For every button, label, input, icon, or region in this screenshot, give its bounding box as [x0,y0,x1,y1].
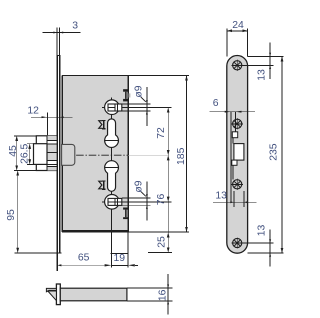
dimension 65 and 19 (backset, bottom) [57,233,138,268]
svg-text:26.5: 26.5 [20,143,31,163]
top keyhole cutout [105,119,119,148]
dimension 26.5 (latch bolt height) [27,144,33,165]
faceplate screw hole 3 [232,179,243,190]
faceplate screw hole 2 [232,118,243,129]
dimension 13 middle (latch opening width) [213,191,257,207]
dimension 45 (latch head height) [14,136,36,171]
svg-text:72: 72 [156,127,167,139]
latch head flange (front view) [36,136,57,171]
dimension 235 (faceplate length) [248,56,284,253]
dimension 13 bottom (screw to plate end) [242,229,274,266]
dimension 95 [14,171,61,253]
faceplate inner edge line [230,112,232,203]
dimension o9 top hub hole [122,87,151,126]
vertical keyhole axis line [111,98,113,268]
faceplate (right side view) [227,56,248,254]
dimension 6 (plate inner offset) [210,111,256,113]
dimension 76 (centerline to bottom hub) [122,155,172,202]
bottom keyhole cutout [105,161,119,192]
faceplate screw hole 4 [232,237,243,248]
dimension 12 (latch projection) [31,113,73,136]
svg-text:235: 235 [269,143,280,161]
faceplate screw hole 1 [232,60,243,71]
auxiliary stop piece bottom (I shape at body right edge) [123,208,128,220]
dimension 16 (case thickness) [127,274,172,314]
svg-text:45: 45 [8,145,19,157]
side view latch bolt wedge [46,288,56,300]
spring clip mark near bottom keyhole [99,180,106,189]
latch bolt face (front view) [34,144,48,165]
svg-text:12: 12 [27,105,39,116]
faceplate edge lines (front view) [57,56,61,272]
svg-text:ø9: ø9 [134,180,145,192]
svg-text:19: 19 [114,253,126,264]
svg-text:ø9: ø9 [134,85,145,97]
dimension 3 (faceplate thickness, top) [43,28,81,56]
horizontal centerline of lock [64,154,129,156]
svg-text:13: 13 [256,225,267,237]
dimension o9 bottom hub hole [122,182,151,221]
faceplate latch opening [234,144,244,161]
svg-text:185: 185 [176,147,187,165]
top keyhole keyway line [105,140,119,142]
svg-text:6: 6 [213,98,219,109]
svg-text:13: 13 [256,69,267,81]
spring clip mark near top keyhole [99,120,106,129]
dimension 24 (faceplate width) [227,28,248,56]
svg-text:13: 13 [215,190,227,201]
connector line [232,138,234,144]
svg-text:95: 95 [6,209,17,221]
dimension 185 (case height) [128,75,189,232]
auxiliary stop piece top (I shape at body right edge) [123,89,128,101]
svg-text:24: 24 [232,20,244,31]
bottom keyhole keyway line [105,166,119,168]
latch guide cells column [47,136,57,171]
top hub screw circle [102,100,122,115]
protruding pin right of body edge [129,93,131,97]
lock body (front view case) [62,75,128,232]
dimension 13 top (plate end to screw) [242,43,274,80]
svg-text:65: 65 [78,253,90,264]
svg-text:16: 16 [157,289,168,301]
connector line 2 [232,165,234,179]
faceplate inner offset line [234,112,236,132]
svg-text:25: 25 [157,236,168,248]
side view case bar [60,288,127,301]
dimension 25 (case bottom to plate end) [148,202,172,253]
svg-text:3: 3 [72,20,78,31]
faceplate latch prep small rect bottom [232,160,237,165]
svg-text:76: 76 [156,194,167,206]
side view faceplate (bottom) [56,284,60,305]
latch follower housing inside body [62,144,75,165]
bottom hub screw circle [102,195,122,210]
faceplate latch prep small rect top [232,132,237,138]
dimension 72 (top hub to centerline) [122,108,172,156]
